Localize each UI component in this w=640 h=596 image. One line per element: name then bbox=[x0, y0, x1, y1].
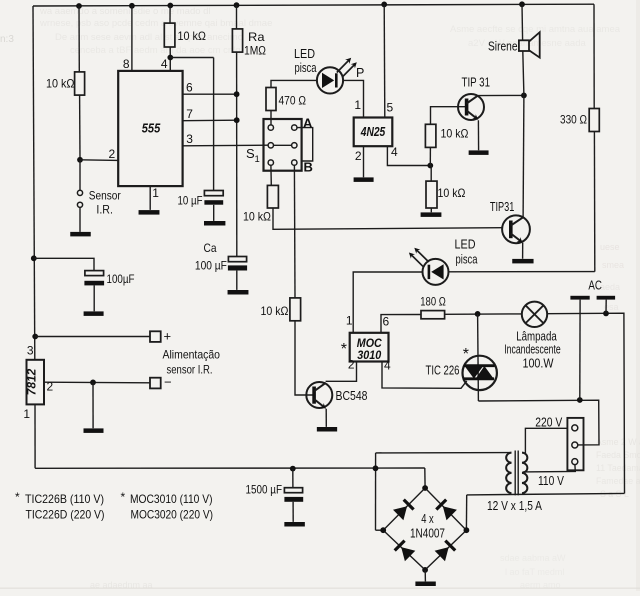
label LED1 bbox=[294, 47, 317, 75]
label pin1 bbox=[152, 186, 159, 200]
label Ra bbox=[244, 30, 266, 58]
svg-text:BC548: BC548 bbox=[336, 389, 368, 403]
svg-text:7812: 7812 bbox=[25, 368, 39, 395]
ground 4N25 bbox=[354, 177, 374, 182]
resistor R7 10k bbox=[426, 181, 437, 208]
wire 220V tap bbox=[525, 428, 567, 453]
wire 4N25 pin4 bbox=[387, 146, 430, 165]
svg-text:470 Ω: 470 Ω bbox=[279, 94, 307, 108]
svg-text:A: A bbox=[303, 116, 313, 131]
wire 4N25 pin2 bbox=[363, 146, 365, 177]
label TIC asterisk bbox=[463, 346, 469, 363]
capacitor C2 100uF plate1 bbox=[85, 271, 104, 276]
label transformer bbox=[487, 499, 543, 513]
svg-text:2: 2 bbox=[348, 358, 355, 372]
svg-text:110 V: 110 V bbox=[538, 474, 565, 488]
svg-text:4: 4 bbox=[391, 145, 398, 159]
label pin7 bbox=[186, 107, 193, 121]
resistor R6 10k bbox=[425, 124, 436, 147]
wire right rail below 330 bbox=[593, 132, 595, 272]
label 4N25 pin1 bbox=[354, 98, 361, 112]
node bridge bottom bbox=[422, 567, 428, 573]
wire 1500uF top bbox=[292, 469, 294, 488]
node plus junction bbox=[32, 334, 38, 340]
wire bottom DC bus bbox=[35, 467, 425, 469]
node DC bus junction 1 bbox=[290, 466, 296, 472]
label MOC asterisk bbox=[341, 341, 347, 358]
node top rail junction F bbox=[519, 1, 525, 7]
node pin6 junction bbox=[234, 91, 240, 97]
label R2 10k bbox=[178, 29, 207, 43]
svg-text:Incandescente: Incandescente bbox=[504, 343, 561, 357]
wire bridge edges bbox=[383, 488, 466, 570]
wire sensor to ground bbox=[79, 207, 81, 232]
label TIP31 2 bbox=[490, 200, 515, 214]
label 110V bbox=[538, 474, 565, 488]
svg-text:TIC226B (110 V): TIC226B (110 V) bbox=[25, 492, 104, 506]
wire DC bus to bridge plus bbox=[424, 468, 426, 488]
svg-text:330 Ω: 330 Ω bbox=[560, 113, 587, 127]
wire R3 to S1 bbox=[270, 111, 272, 126]
svg-text:10 kΩ: 10 kΩ bbox=[438, 186, 466, 200]
label MOC pin4 bbox=[384, 359, 391, 373]
svg-text:MOC3010 (110 V): MOC3010 (110 V) bbox=[130, 492, 213, 506]
wire pin7 bbox=[183, 119, 237, 122]
label Ca bbox=[195, 241, 227, 273]
label R7 10k bbox=[438, 186, 466, 200]
diode D3 1N4007 bbox=[393, 500, 414, 521]
ground TIP2 bbox=[512, 259, 533, 264]
svg-text:pisca: pisca bbox=[295, 61, 317, 75]
svg-text:4: 4 bbox=[161, 57, 168, 71]
svg-text:5: 5 bbox=[387, 101, 394, 115]
svg-text:555: 555 bbox=[142, 121, 161, 136]
terminal minus bbox=[150, 378, 161, 389]
svg-text:8: 8 bbox=[123, 57, 130, 71]
svg-text:Asme aecfte se cqe mi amtna au: Asme aecfte se cqe mi amtna aua amea bbox=[450, 24, 621, 35]
transformer T1 core bbox=[515, 451, 518, 496]
wire pin4 branch right bbox=[170, 57, 213, 59]
label minus bbox=[164, 375, 172, 390]
label BC548 bbox=[336, 389, 368, 403]
svg-text:1MΩ: 1MΩ bbox=[244, 44, 266, 58]
label 7812 pin2 bbox=[47, 380, 54, 394]
svg-text:10 kΩ: 10 kΩ bbox=[46, 77, 75, 91]
svg-text:Sensor: Sensor bbox=[89, 189, 121, 203]
resistor R8 330 bbox=[589, 109, 599, 132]
wire R5 to BC548 base bbox=[295, 321, 314, 395]
node DC bus junction 2 bbox=[373, 465, 379, 471]
label alimentacao bbox=[163, 348, 221, 377]
connector CN1 hole3 bbox=[572, 459, 578, 465]
svg-text:MOC3020 (220 V): MOC3020 (220 V) bbox=[131, 508, 214, 522]
wire pin1 bbox=[149, 186, 151, 210]
svg-text:AC: AC bbox=[588, 278, 602, 293]
label 7812 bbox=[25, 368, 39, 395]
wire sirene rail upper bbox=[521, 4, 524, 40]
svg-text:100 µF: 100 µF bbox=[195, 259, 227, 273]
label R3 470 bbox=[279, 94, 307, 108]
wire right rail top bbox=[593, 4, 595, 108]
svg-text:De anm sese aevm adl al st ao: De anm sese aevm adl al st ao prm anecim… bbox=[55, 32, 243, 43]
LED D1 pisca bbox=[317, 58, 357, 94]
svg-text:Alimentação: Alimentação bbox=[163, 348, 221, 362]
capacitor C1 10uF plate2 bbox=[204, 200, 223, 205]
label Sensor IR bbox=[89, 189, 121, 217]
node top rail junction E bbox=[381, 2, 387, 8]
resistor R3 470 bbox=[266, 88, 276, 111]
wire secondary left down bbox=[375, 453, 377, 530]
wire bridge right up bbox=[465, 495, 467, 530]
label plus bbox=[164, 329, 172, 344]
wire 110V tap bbox=[523, 465, 576, 472]
wire 180 to lamp bbox=[445, 313, 522, 315]
ground sensor bbox=[70, 232, 91, 237]
capacitor C3 1500uF plate2 bbox=[284, 497, 303, 502]
switch S1 contacts bbox=[268, 125, 297, 165]
label pin3 bbox=[186, 132, 193, 146]
svg-text:6: 6 bbox=[383, 315, 390, 329]
label 220V bbox=[535, 416, 563, 430]
node bridge right bbox=[464, 527, 470, 533]
svg-text:I.R.: I.R. bbox=[96, 203, 113, 217]
svg-text:uese: uese bbox=[600, 242, 620, 252]
wire triac rail bbox=[477, 314, 480, 401]
label R5 10k bbox=[261, 304, 289, 318]
svg-text:100.W: 100.W bbox=[523, 357, 554, 371]
resistor Ra 1M bbox=[232, 29, 242, 52]
svg-text:pisca: pisca bbox=[456, 253, 478, 267]
wire left supply rail bbox=[33, 6, 35, 360]
node AC1 junction bbox=[577, 397, 583, 403]
wire S1 to R5 bbox=[293, 165, 296, 298]
transformer T1 primary bbox=[522, 453, 527, 494]
wire S1 middle link bbox=[274, 144, 292, 146]
svg-text:10 kΩ: 10 kΩ bbox=[178, 29, 207, 43]
ground R7 bbox=[421, 212, 442, 217]
wire 1500uF ground bbox=[292, 502, 294, 522]
resistor R5 10k bbox=[290, 298, 301, 321]
connector CN1 hole2 bbox=[572, 442, 578, 448]
wire AC1 down bbox=[579, 300, 581, 400]
label bridge bbox=[410, 512, 445, 541]
wire R2 top bbox=[169, 6, 171, 24]
svg-text:2: 2 bbox=[355, 149, 362, 163]
diode D6 1N4007 bbox=[435, 541, 456, 562]
wire C2 ground bbox=[93, 285, 95, 311]
node minus gnd junction bbox=[90, 380, 96, 386]
label pin2 bbox=[109, 147, 116, 161]
svg-text:3010: 3010 bbox=[357, 350, 382, 362]
svg-text:sdae aabma aW: sdae aabma aW bbox=[500, 553, 566, 563]
ground 7812 bbox=[84, 428, 104, 433]
svg-text:1: 1 bbox=[346, 314, 353, 328]
svg-text:4: 4 bbox=[384, 359, 391, 373]
label note TIC bbox=[15, 490, 105, 522]
terminal sensor IR bottom bbox=[77, 202, 82, 207]
node pin4 10k junction bbox=[427, 163, 433, 169]
resistor R1 10k bbox=[75, 72, 85, 95]
ic U3 MOC3010 body bbox=[350, 333, 389, 362]
resistor R4 10k bbox=[267, 185, 278, 208]
wire minus gnd bbox=[92, 382, 94, 428]
ground C2 bbox=[84, 311, 104, 316]
wire collector rail bbox=[522, 95, 525, 217]
svg-text:n:3: n:3 bbox=[0, 34, 14, 45]
label C1 10uF bbox=[178, 194, 203, 208]
svg-text:TIP 31: TIP 31 bbox=[462, 76, 491, 90]
svg-text:Famedae aeda Pe a 2aa 1: Famedae aeda Pe a 2aa 1 bbox=[596, 476, 640, 486]
svg-text:aeda: aeda bbox=[600, 282, 620, 292]
svg-text:TIC226D (220 V): TIC226D (220 V) bbox=[26, 508, 105, 522]
svg-text:LED: LED bbox=[455, 238, 476, 252]
svg-text:1: 1 bbox=[23, 407, 30, 421]
capacitor Ca plate1 bbox=[228, 257, 246, 262]
wire MOC pin2 bbox=[326, 362, 357, 382]
label 7812 pin1 bbox=[23, 407, 30, 421]
node AC2 junction bbox=[603, 311, 609, 317]
wire lamp right bbox=[547, 313, 624, 493]
label TIP31 1 bbox=[462, 76, 491, 90]
label 4N25 pin2 bbox=[355, 149, 362, 163]
label pin8 bbox=[123, 57, 130, 71]
transformer T1 secondary bbox=[506, 453, 511, 494]
wire LED1 left bbox=[271, 80, 317, 87]
label C2 100uF bbox=[107, 272, 135, 286]
wire R1 to pin2 node bbox=[79, 95, 81, 160]
svg-text:7: 7 bbox=[186, 107, 193, 121]
wire S1 to R4 bbox=[270, 165, 272, 185]
svg-text:P: P bbox=[356, 66, 364, 80]
label MOC pin2 bbox=[348, 358, 355, 372]
wire bottom ac line bbox=[467, 493, 625, 495]
svg-text:12 V x 1,5 A: 12 V x 1,5 A bbox=[487, 499, 543, 513]
wire Ra down bbox=[236, 52, 238, 256]
capacitor C3 1500uF plate1 bbox=[284, 488, 302, 493]
terminal AC bar2 bbox=[597, 296, 616, 300]
wire TIP1 emitter bbox=[477, 120, 479, 150]
svg-text:6: 6 bbox=[186, 81, 193, 95]
wire Ca to ground bbox=[236, 271, 238, 290]
resistor R2 10k bbox=[164, 23, 175, 47]
wire R7 top bbox=[430, 166, 432, 182]
svg-text:*: * bbox=[121, 490, 126, 504]
svg-text:*: * bbox=[341, 341, 347, 358]
label 555 bbox=[142, 121, 161, 136]
node pin7 junction bbox=[234, 117, 240, 123]
label R8 330 bbox=[560, 113, 587, 127]
label 7812 pin3 bbox=[27, 344, 34, 358]
svg-text:3: 3 bbox=[186, 132, 193, 146]
svg-text:3: 3 bbox=[27, 344, 34, 358]
svg-text:−: − bbox=[164, 375, 172, 390]
svg-text:wrnese, psb aso pcde cedm a sv: wrnese, psb aso pcde cedm a svemne qai b… bbox=[39, 18, 272, 29]
svg-text:10 kΩ: 10 kΩ bbox=[243, 210, 271, 224]
node bridge top bbox=[422, 485, 428, 491]
LED D2 pisca bbox=[409, 248, 449, 285]
transistor Q1 TIP31 bbox=[458, 94, 484, 120]
speaker sirene bbox=[519, 32, 540, 57]
op 555 pin2 wire bbox=[80, 159, 118, 162]
svg-text:100µF: 100µF bbox=[107, 272, 135, 286]
svg-text:11 Taedamamder de aece: 11 Taedamamder de aece bbox=[596, 463, 640, 473]
ic U4 7812 body bbox=[27, 360, 45, 405]
wire TIP1 collector bbox=[478, 94, 524, 96]
wire LED2 left bbox=[353, 272, 422, 333]
wire plus terminal bbox=[35, 336, 150, 338]
wire S1 A-B bracket bbox=[297, 128, 313, 161]
wire pin2 junction to sensor bbox=[79, 160, 81, 191]
svg-text:2: 2 bbox=[109, 147, 116, 161]
node top rail junction A bbox=[76, 3, 82, 9]
triac TR1 TIC226 bbox=[463, 356, 497, 390]
ground Ca bbox=[228, 290, 249, 295]
wire to 100uF bbox=[34, 258, 94, 270]
svg-text:10 kΩ: 10 kΩ bbox=[441, 127, 469, 141]
svg-text:10 µF: 10 µF bbox=[178, 194, 203, 208]
svg-text:l ao faT medml: l ao faT medml bbox=[505, 567, 564, 577]
svg-text:10 kΩ: 10 kΩ bbox=[261, 304, 289, 318]
label B bbox=[304, 160, 313, 175]
lamp incandescent bbox=[522, 302, 547, 327]
label TIC226 bbox=[426, 364, 460, 378]
wire R1 top bbox=[78, 6, 80, 72]
wire pin6 bbox=[183, 93, 237, 95]
label R1 10k bbox=[46, 77, 75, 91]
svg-text:1: 1 bbox=[354, 98, 361, 112]
wire secondary top bbox=[376, 452, 512, 454]
wire pin4 bbox=[169, 47, 171, 71]
wire LED1 right bbox=[343, 80, 363, 117]
wire R6 bottom bbox=[429, 147, 431, 165]
svg-text:4 x: 4 x bbox=[421, 512, 434, 526]
svg-text:LED: LED bbox=[294, 47, 315, 61]
wire pin3 bbox=[183, 144, 269, 147]
label S1 bbox=[246, 146, 260, 165]
svg-text:+: + bbox=[164, 329, 172, 344]
label lamp bbox=[504, 330, 561, 371]
label MOC3010 bbox=[357, 338, 383, 362]
switch S1 body bbox=[264, 119, 302, 171]
label sirene bbox=[488, 40, 518, 54]
ground 1500uF bbox=[284, 522, 305, 527]
ground C1 bbox=[204, 221, 225, 226]
svg-text:180 Ω: 180 Ω bbox=[420, 295, 446, 309]
label A bbox=[303, 116, 313, 131]
label R9 180 bbox=[420, 295, 446, 309]
label node P bbox=[356, 66, 364, 80]
wire TIP1 base bbox=[431, 107, 466, 125]
wire AC2 down bbox=[605, 300, 607, 314]
svg-text:Faeda Smo fTM - 1C am: Faeda Smo fTM - 1C am bbox=[596, 450, 640, 460]
label LED2 bbox=[455, 238, 478, 267]
label 4N25 pin4 bbox=[391, 145, 398, 159]
svg-text:Ca: Ca bbox=[204, 241, 217, 255]
node TIP1 collector junction bbox=[521, 93, 527, 99]
wire Ra top bbox=[236, 5, 238, 29]
label MOC pin6 bbox=[383, 315, 390, 329]
resistor R9 180 bbox=[421, 311, 445, 319]
svg-text:TIC 226: TIC 226 bbox=[426, 364, 460, 378]
label note MOC bbox=[121, 490, 214, 522]
terminal AC bar1 bbox=[570, 296, 589, 300]
capacitor Ca plate2 bbox=[228, 265, 247, 270]
svg-text:Sirene: Sirene bbox=[488, 40, 518, 54]
svg-text:1: 1 bbox=[255, 154, 260, 165]
label pin4 bbox=[161, 57, 168, 71]
wire branch down to C 10u bbox=[213, 58, 215, 191]
svg-text:1N4007: 1N4007 bbox=[410, 527, 445, 541]
ic U1 555 body bbox=[118, 71, 182, 186]
svg-text:Asme 2 W aeda: Asme 2 W aeda bbox=[596, 437, 640, 447]
capacitor C2 100uF plate2 bbox=[84, 281, 104, 286]
wire bridge ground bbox=[424, 570, 426, 582]
terminal plus bbox=[150, 331, 161, 342]
ground TIP1 bbox=[469, 150, 489, 155]
svg-text:cenceba a tBF aedm am da aoe c: cenceba a tBF aedm am da aoe cm cnlg bbox=[70, 45, 241, 56]
wire BC548 emitter bbox=[325, 409, 327, 427]
node top rail junction C bbox=[167, 3, 173, 9]
wire MOC pin6 bbox=[381, 315, 421, 333]
node top rail junction B bbox=[129, 3, 135, 9]
label 1500uF bbox=[246, 483, 283, 497]
wire MOC pin4 to gate bbox=[382, 362, 467, 389]
label 4N25 bbox=[360, 125, 386, 139]
svg-text:Ra: Ra bbox=[248, 30, 265, 44]
wire R4 to TIP2 base bbox=[273, 208, 502, 229]
svg-text:1500 µF: 1500 µF bbox=[246, 483, 283, 497]
transistor Q2 TIP31 bbox=[502, 215, 530, 243]
transistor Q3 BC548 bbox=[306, 382, 332, 409]
terminal sensor IR top bbox=[77, 190, 82, 195]
svg-text:Lâmpada: Lâmpada bbox=[516, 330, 557, 344]
connector CN1 hole1 bbox=[572, 425, 578, 431]
node pin2 junction bbox=[77, 157, 83, 163]
wire sirene rail lower bbox=[523, 51, 524, 95]
diode D4 1N4007 bbox=[436, 500, 457, 521]
wire LED2 right bbox=[449, 271, 595, 273]
svg-text:smea: smea bbox=[602, 260, 624, 270]
svg-text:TIP31: TIP31 bbox=[490, 200, 515, 214]
ground BC548 bbox=[317, 427, 337, 432]
wire 4N25 pin5 bbox=[383, 4, 386, 117]
svg-text:MOC: MOC bbox=[357, 338, 383, 350]
wire pin8 bbox=[131, 6, 133, 71]
node 100uF junction bbox=[31, 255, 37, 261]
node triac top junction bbox=[475, 311, 481, 317]
ground bridge bbox=[415, 582, 435, 587]
ic U2 4N25 body bbox=[354, 118, 393, 147]
svg-text:220 V: 220 V bbox=[535, 416, 563, 430]
node top rail junction D bbox=[234, 2, 240, 8]
label 4N25 pin5 bbox=[387, 101, 394, 115]
label pin6 bbox=[186, 81, 193, 95]
wire C1 to ground bbox=[213, 205, 215, 221]
svg-text:*: * bbox=[15, 490, 20, 504]
label AC bbox=[588, 278, 602, 293]
capacitor C1 10uF plate1 bbox=[204, 191, 223, 196]
node pin4 junction bbox=[167, 55, 173, 61]
svg-text:4N25: 4N25 bbox=[360, 125, 386, 139]
node bridge left bbox=[380, 527, 386, 533]
svg-text:wa aaemdo a someni sdie o me m: wa aaemdo a someni sdie o me mado dl bbox=[39, 6, 211, 17]
wire top supply rail bbox=[33, 4, 594, 6]
label R4 10k bbox=[243, 210, 271, 224]
diode D5 1N4007 bbox=[395, 541, 416, 562]
wire minus terminal bbox=[44, 381, 150, 384]
wire 7812 output to bottom-left corner bbox=[34, 404, 36, 468]
svg-text:B: B bbox=[304, 160, 313, 175]
